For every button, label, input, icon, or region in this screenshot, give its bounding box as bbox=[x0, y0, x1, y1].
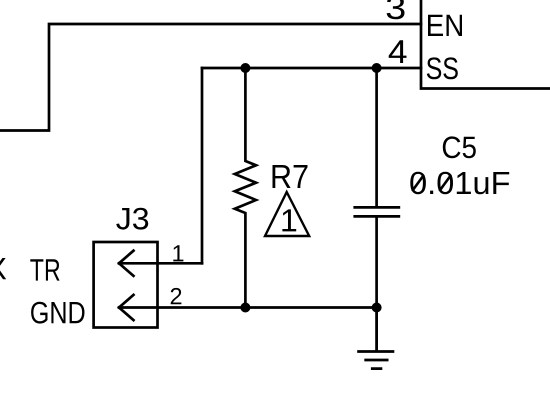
pin 4 number bbox=[389, 40, 407, 63]
flag number 1 bbox=[282, 209, 296, 231]
partial label X bbox=[0, 258, 6, 279]
pin 1 number bbox=[173, 245, 183, 261]
J3 pin 2 arrow bbox=[119, 295, 134, 320]
ground symbol bbox=[359, 308, 393, 369]
IC U1 box (partial) bbox=[421, 0, 550, 89]
resistor R7 bbox=[235, 68, 256, 308]
wire: J3 pin 1 horizontal bbox=[119, 262, 202, 265]
wire: J3 pin 2 / GND net horizontal bbox=[119, 306, 377, 309]
label C5 bbox=[443, 136, 476, 158]
junction dot at R7 top bbox=[240, 63, 250, 73]
wire: vertical from SS net down to J3 pin 1 bbox=[201, 68, 204, 263]
junction dot at C5 top bbox=[372, 63, 382, 73]
capacitor C5 bottom lead bbox=[375, 218, 378, 308]
J3 pin 1 arrow bbox=[119, 251, 134, 276]
pin 3 number bbox=[387, 0, 405, 19]
label GND bbox=[31, 302, 84, 324]
junction dot at R7 bottom bbox=[240, 303, 250, 313]
pin 2 number bbox=[171, 288, 182, 304]
value 0.01uF bbox=[410, 172, 509, 195]
wire: EN net from left edge bbox=[0, 24, 421, 131]
label TR bbox=[30, 259, 59, 280]
connector J3 box bbox=[94, 242, 158, 328]
slashed zeros of 0.01uF bbox=[412, 175, 451, 191]
junction dot at GND net bbox=[372, 303, 382, 313]
label J3 bbox=[116, 208, 148, 230]
wire: SS net horizontal bbox=[202, 67, 421, 70]
label R7 bbox=[273, 165, 308, 188]
flag triangle 1 bbox=[265, 192, 309, 236]
capacitor C5 plates bbox=[355, 207, 399, 216]
pin name SS bbox=[427, 57, 458, 79]
capacitor C5 top lead bbox=[375, 68, 378, 206]
pin name EN bbox=[428, 15, 462, 36]
